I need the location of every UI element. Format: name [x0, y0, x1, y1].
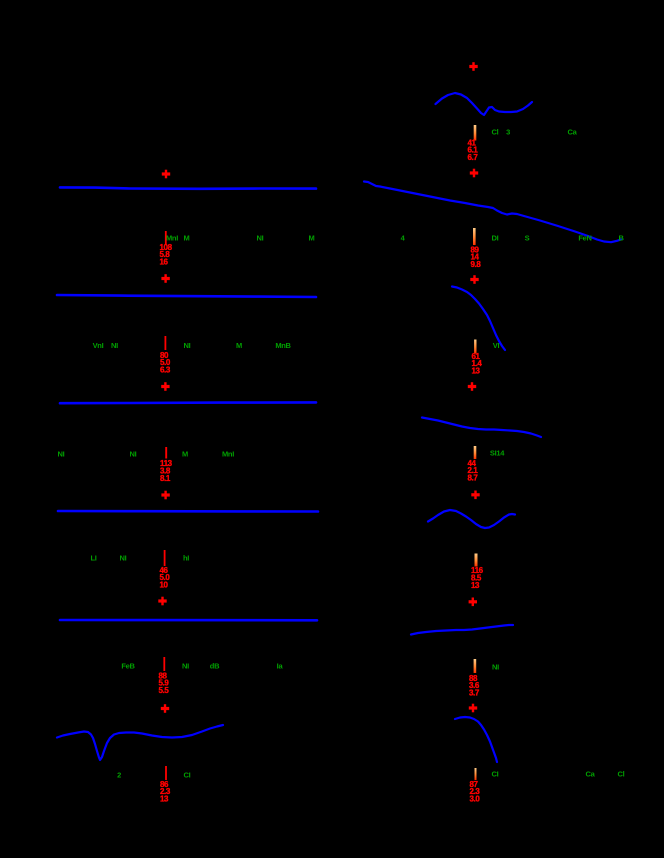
line-center tick R5 [475, 554, 478, 567]
measurement numbers R5 [471, 566, 484, 590]
svg-text:MnB: MnB [275, 341, 291, 350]
svg-text:5.5: 5.5 [159, 686, 170, 695]
measurement numbers L4 [160, 459, 173, 483]
svg-text:DI: DI [492, 233, 499, 242]
continuum marker plus R1 [469, 65, 477, 68]
svg-text:13: 13 [160, 795, 169, 804]
measurement numbers L6 [159, 671, 170, 695]
svg-text:NI: NI [58, 449, 65, 458]
continuum marker plus R6 [469, 600, 477, 603]
continuum marker plus R5 [471, 493, 479, 496]
line-center tick R3 [474, 340, 476, 354]
continuum marker plus L3 [161, 277, 169, 280]
spectrum curve L5 [58, 510, 318, 513]
measurement numbers L3 [160, 351, 171, 375]
svg-text:NI: NI [492, 662, 499, 671]
spectrum curve L2 [60, 187, 316, 188]
continuum marker plus L7 [161, 707, 169, 710]
svg-text:VI: VI [493, 341, 500, 350]
line-center tick L3 [165, 336, 167, 350]
svg-text:9.8: 9.8 [471, 260, 482, 269]
continuum marker plus L5 [161, 493, 169, 496]
svg-text:M: M [236, 341, 242, 350]
svg-text:3.0: 3.0 [470, 795, 481, 804]
svg-text:CI: CI [492, 769, 499, 778]
measurement numbers L2 [160, 243, 173, 267]
measurement numbers R2 [471, 245, 482, 269]
line-center tick L5 [164, 550, 166, 566]
svg-text:dB: dB [210, 661, 220, 670]
svg-text:NI: NI [111, 341, 118, 350]
svg-text:6.7: 6.7 [468, 153, 479, 162]
continuum marker plus L4 [161, 385, 169, 388]
spectrum curve L3 [57, 295, 316, 297]
svg-text:MnI: MnI [222, 449, 234, 458]
svg-text:NI: NI [257, 233, 264, 242]
line-center tick L6 [163, 657, 165, 671]
line-center tick R6 [474, 659, 477, 673]
line-center tick L4 [165, 447, 167, 459]
svg-text:SI14: SI14 [490, 448, 505, 457]
svg-text:M: M [182, 449, 188, 458]
spectrum curve L7 [57, 725, 223, 760]
spectrum curve R6 [411, 625, 513, 635]
svg-text:13: 13 [472, 367, 481, 376]
svg-text:13: 13 [471, 581, 480, 590]
measurement numbers L5 [160, 566, 171, 590]
line-center tick R7 [475, 768, 477, 780]
svg-text:NI: NI [130, 449, 137, 458]
measurement numbers R4 [468, 459, 479, 483]
svg-text:M: M [184, 233, 190, 242]
continuum marker plus L2 [162, 172, 170, 175]
svg-text:Cl: Cl [618, 769, 625, 778]
spectrum curve R4 [422, 418, 541, 438]
measurement numbers R6 [469, 674, 480, 698]
svg-text:M: M [309, 233, 315, 242]
svg-text:3.7: 3.7 [469, 689, 480, 698]
svg-text:NI: NI [182, 661, 189, 670]
spectrum curve R2 [364, 182, 621, 243]
line-center tick L2 [165, 231, 167, 245]
continuum marker plus R2 [470, 171, 478, 174]
measurement numbers R1 [468, 138, 479, 162]
svg-text:MnI: MnI [166, 233, 178, 242]
svg-text:Ca: Ca [586, 769, 596, 778]
svg-text:16: 16 [160, 258, 169, 267]
svg-text:FeN: FeN [578, 233, 591, 242]
measurement numbers R3 [472, 352, 483, 376]
spectrum curve R1 [436, 93, 533, 115]
continuum marker plus R3 [470, 278, 478, 281]
spectrum curve R3 [452, 287, 505, 351]
svg-text:VnI: VnI [93, 341, 104, 350]
spectrum curve R5 [428, 510, 515, 528]
svg-text:CI: CI [184, 770, 191, 779]
svg-text:2: 2 [117, 770, 121, 779]
measurement numbers L7 [160, 780, 171, 804]
spectrum curve R7 [455, 717, 497, 762]
svg-text:NI: NI [120, 553, 127, 562]
continuum marker plus L6 [158, 599, 166, 602]
svg-text:Cl: Cl [492, 127, 499, 136]
line-center tick L7 [165, 766, 167, 780]
svg-text:NI: NI [184, 341, 191, 350]
line-center tick R2 [473, 228, 476, 245]
line-center tick R1 [474, 125, 477, 141]
svg-text:LI: LI [90, 553, 96, 562]
svg-text:FeB: FeB [121, 661, 135, 670]
svg-text:hI: hI [183, 553, 189, 562]
continuum marker plus R4 [468, 385, 476, 388]
spectrum curve L6 [60, 619, 317, 622]
svg-text:6.3: 6.3 [160, 366, 171, 375]
svg-text:3: 3 [506, 127, 510, 136]
svg-text:Ca: Ca [568, 127, 578, 136]
continuum marker plus R7 [469, 706, 477, 709]
measurement numbers R7 [470, 780, 481, 804]
svg-text:8.1: 8.1 [160, 474, 171, 483]
svg-text:8.7: 8.7 [468, 474, 479, 483]
line-center tick R4 [474, 446, 477, 459]
line identification labels (green) [58, 127, 625, 779]
svg-text:10: 10 [160, 581, 169, 590]
spectrum curve L4 [60, 401, 316, 404]
svg-text:B: B [618, 233, 624, 242]
svg-text:S: S [525, 233, 530, 242]
